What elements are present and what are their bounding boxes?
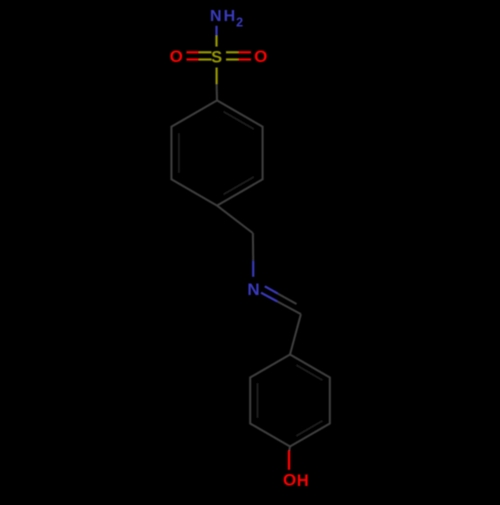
- S=O left double bond, yellow halves: [199, 51, 212, 53]
- imine N=CH main line blue half: [261, 293, 277, 302]
- imine N=CH main line gray half: [277, 301, 301, 314]
- bond CH to ring2-C1 (gray): [290, 314, 301, 354]
- bond CH2-N upper half (gray): [252, 233, 254, 261]
- ring 1 inner aromatic line 2: [224, 177, 254, 195]
- svg-text:O: O: [170, 47, 183, 66]
- imine N=CH second line gray half: [278, 294, 297, 304]
- svg-text:S: S: [211, 49, 222, 67]
- svg-text:H: H: [224, 8, 236, 25]
- S=O left double bond, red halves: [187, 51, 199, 53]
- bond ring2-C4 to O upper stub (gray): [288, 447, 291, 452]
- svg-text:N: N: [210, 8, 222, 25]
- svg-text:O: O: [283, 471, 296, 490]
- bond S-C1 lower half (carbon gray): [216, 84, 218, 100]
- svg-text:2: 2: [236, 15, 243, 29]
- ring 1 inner aromatic line 1: [224, 112, 254, 130]
- bond CH2-N lower half (blue): [252, 261, 254, 277]
- bond ring1-C4 to CH2 (gray): [217, 206, 253, 233]
- S=O right double bond, red halves: [238, 51, 251, 53]
- bond N(H2)-S lower half (yellow): [215, 35, 217, 46]
- svg-text:H: H: [297, 472, 309, 490]
- bond S-C1 upper half (yellow): [216, 68, 218, 85]
- ring 2 inner aromatic line 2: [296, 421, 322, 436]
- svg-text:N: N: [247, 280, 259, 299]
- benzene ring 1: [171, 100, 262, 205]
- S=O right double bond, yellow halves: [226, 51, 238, 53]
- svg-text:O: O: [254, 47, 267, 66]
- imine N=CH second line blue half: [265, 286, 278, 293]
- ring 2 inner aromatic line 1: [296, 365, 322, 380]
- bond C-OH red half: [288, 451, 290, 470]
- ring 2 inner aromatic line 3: [257, 383, 259, 418]
- bond N(H2)-S upper half (blue): [215, 26, 217, 36]
- ring 1 inner aromatic line 3: [178, 133, 180, 173]
- benzene ring 2: [250, 355, 330, 447]
